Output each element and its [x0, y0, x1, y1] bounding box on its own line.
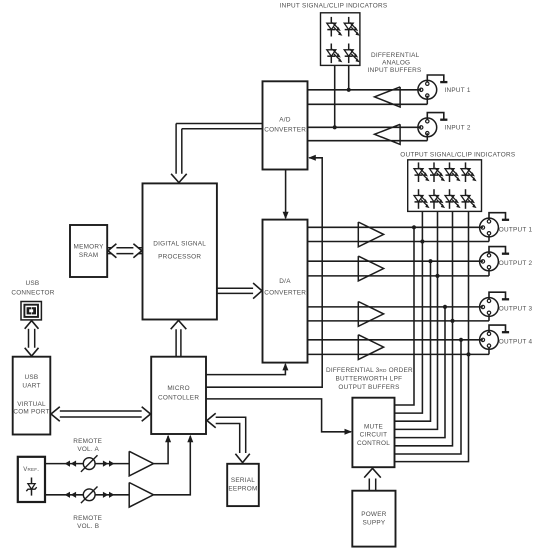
svg-text:CONNECTOR: CONNECTOR: [11, 290, 54, 297]
LED output indicator D7: [445, 162, 461, 182]
svg-text:DIFFERENTIAL: DIFFERENTIAL: [371, 52, 420, 59]
svg-text:MUTE: MUTE: [364, 424, 383, 431]
wire A/D to DSP bus inner drop: [181, 129, 183, 175]
svg-text:POWER: POWER: [361, 511, 387, 518]
LED input indicator D2: [344, 17, 360, 37]
arrowhead bus into mute control bottom: [364, 468, 381, 477]
svg-text:INPUT SIGNAL/CLIP INDICATORS: INPUT SIGNAL/CLIP INDICATORS: [280, 3, 388, 10]
wire vol B buffer output up to micro: [154, 436, 191, 495]
LED input indicator D4: [344, 44, 360, 64]
svg-text:ANALOG: ANALOG: [382, 59, 410, 66]
chevron arrows toward Vref on vol B line: [65, 492, 77, 498]
XLR connector INPUT 1 with chassis ground: [418, 75, 448, 99]
wire input 1 hot: XLR pin to A/D: [308, 89, 422, 91]
LED output indicator D10: [430, 189, 446, 209]
junction mute sense tap 3: [428, 259, 432, 263]
wire D/A output 1 hot line to XLR pin 2: [308, 226, 483, 228]
svg-text:INPUT BUFFERS: INPUT BUFFERS: [368, 67, 422, 74]
wire input 2 hot: XLR pin to A/D: [308, 126, 422, 128]
wire SRAM-DSP bus lower rail: [107, 253, 142, 255]
wire SRAM-DSP bus upper rail: [107, 247, 142, 249]
block A/D converter: [263, 81, 308, 169]
XLR connector INPUT 2 with chassis ground: [418, 113, 448, 137]
LED input indicator D3: [327, 44, 343, 64]
arrowhead bus into SRAM: [108, 244, 116, 258]
wire mute sense line 1 from output line to mute control: [395, 227, 415, 405]
svg-text:REMOTE: REMOTE: [73, 515, 102, 522]
LED output indicator D6: [430, 162, 446, 182]
svg-text:USB: USB: [25, 374, 39, 381]
op-amp butterworth LPF output buffer U6: [358, 335, 383, 360]
arrowhead into A/D right edge: [308, 155, 316, 161]
wire D/A output 3 hot line to XLR pin 2: [308, 306, 483, 308]
block output signal/clip indicator LEDs: [408, 160, 482, 212]
wire vol A buffer output up to micro: [154, 436, 169, 464]
op-amp differential input buffer U1: [375, 87, 401, 107]
wire output 4 cold stub up to XLR pin 3: [488, 347, 490, 354]
wire micro to mute circuit control: [206, 399, 351, 432]
chevron arrows toward Vref on vol A line: [65, 461, 77, 467]
arrowhead bus into DSP bottom: [171, 320, 187, 329]
svg-text:VIRTUAL: VIRTUAL: [17, 401, 46, 408]
svg-text:SERIAL: SERIAL: [231, 477, 255, 484]
svg-text:OUTPUT 3: OUTPUT 3: [499, 305, 533, 312]
op-amp butterworth LPF output buffer U4: [358, 256, 383, 281]
wire output 1 cold stub up to XLR pin 3: [488, 235, 490, 242]
wire USB connector-UART bus right rail: [34, 329, 36, 349]
USB connector icon: [21, 302, 41, 320]
wire D/A output 3 cold line: [308, 320, 490, 322]
wire mute sense line 8 from output line to mute control: [395, 211, 469, 461]
wire UART-micro bus upper rail: [60, 410, 143, 412]
wire power-mute bus left rail: [368, 479, 370, 491]
svg-text:COM PORT: COM PORT: [13, 409, 49, 416]
junction mute sense tap 8: [466, 352, 470, 356]
wire Vref to remote vol A pot: [45, 463, 83, 465]
svg-text:UART: UART: [22, 382, 40, 389]
svg-text:CONVERTER: CONVERTER: [264, 289, 306, 296]
wire DSP to D/A bus lower rail: [217, 292, 254, 294]
LED input indicator D1: [327, 17, 343, 37]
wire remote vol A pot to buffer: [95, 463, 129, 465]
wire input 1 cold stub to XLR pin 3: [426, 96, 428, 105]
block mute circuit control: [352, 398, 394, 468]
arrowhead vol A into micro bottom: [165, 435, 171, 443]
arrowhead into D/A top: [283, 212, 289, 220]
arrowhead vol B into micro bottom: [187, 435, 193, 443]
block input signal/clip indicator LEDs: [321, 13, 360, 66]
wire input LED column 1 down to input 2 hot line: [334, 65, 336, 127]
junction input 2 hot / LED column 1: [333, 125, 337, 129]
junction mute sense tap 5: [443, 305, 447, 309]
svg-text:MICRO: MICRO: [167, 385, 190, 392]
junction mute sense tap 7: [459, 338, 463, 342]
zener diode Vref: [26, 478, 36, 496]
svg-text:OUTPUT 4: OUTPUT 4: [499, 339, 533, 346]
svg-text:USB: USB: [26, 280, 40, 287]
arrowhead bus into USB UART top: [25, 348, 39, 356]
wire input 2 cold stub to XLR pin 3: [426, 133, 428, 141]
wire mute sense line 7 from output line to mute control: [395, 340, 462, 454]
wire micro-EEPROM bus outer rail: [216, 417, 246, 453]
svg-text:INPUT 1: INPUT 1: [445, 87, 471, 94]
svg-text:VOL. A: VOL. A: [77, 446, 99, 453]
block Vref: [18, 457, 45, 502]
wire micro-EEPROM bus inner rail: [216, 424, 240, 454]
LED output indicator D8: [461, 162, 477, 182]
op-amp remote vol A buffer: [129, 451, 153, 476]
wire micro to D/A bottom control: [206, 364, 285, 374]
wire mute sense line 4 from output line to mute control: [395, 211, 438, 429]
svg-text:VOL. B: VOL. B: [77, 523, 99, 530]
LED output indicator D12: [461, 189, 477, 209]
svg-text:DIGITAL SIGNAL: DIGITAL SIGNAL: [153, 241, 206, 248]
junction mute sense tap 2: [420, 239, 424, 243]
wire output 3 cold stub up to XLR pin 3: [488, 315, 490, 321]
block power supply: [352, 491, 395, 547]
block digital signal processor: [143, 183, 217, 319]
svg-text:EEPROM: EEPROM: [228, 486, 257, 493]
wire D/A output 4 hot line to XLR pin 2: [308, 339, 483, 341]
wire D/A output 2 cold line: [308, 275, 490, 277]
LED output indicator D5: [414, 162, 430, 182]
svg-text:CONVERTER: CONVERTER: [264, 127, 306, 134]
LED output indicator D11: [445, 189, 461, 209]
svg-text:INPUT 2: INPUT 2: [445, 125, 471, 132]
svg-text:SRAM: SRAM: [79, 252, 98, 259]
block memory SRAM: [70, 225, 107, 277]
op-amp differential input buffer U2: [375, 124, 401, 144]
svg-text:CONTROL: CONTROL: [357, 440, 390, 447]
chevron arrows toward buffer on vol B line: [103, 492, 115, 498]
potentiometer remote vol A: [81, 455, 98, 472]
junction mute sense tap 1: [412, 225, 416, 229]
wire remote vol B pot to buffer: [95, 494, 129, 496]
svg-text:DIFFERENTIAL 3RD ORDER: DIFFERENTIAL 3RD ORDER: [326, 367, 413, 374]
wire micro to DSP bus left rail: [175, 329, 177, 357]
arrowhead into D/A bottom: [282, 363, 288, 371]
chevron arrows toward buffer on vol A line: [103, 461, 115, 467]
wire mute sense line 6 from output line to mute control: [395, 211, 453, 445]
arrowhead bus into micro right edge: [207, 413, 216, 427]
block D/A converter: [263, 220, 308, 363]
wire power-mute bus right rail: [375, 479, 377, 491]
wire A/D to DSP bus upper rail: [176, 123, 262, 125]
svg-text:A/D: A/D: [279, 117, 291, 124]
arrowhead bus into DSP top: [171, 174, 187, 183]
svg-text:CIRCUIT: CIRCUIT: [360, 432, 388, 439]
svg-text:D/A: D/A: [279, 278, 291, 285]
svg-text:OUTPUT 1: OUTPUT 1: [499, 226, 533, 233]
wire mute sense line 2 from output line to mute control: [395, 211, 423, 413]
svg-text:OUTPUT SIGNAL/CLIP INDICATORS: OUTPUT SIGNAL/CLIP INDICATORS: [400, 152, 515, 159]
wire Vref to remote vol B pot: [45, 494, 83, 496]
wire DSP to D/A bus upper rail: [217, 287, 254, 289]
XLR connector OUTPUT 2 with chassis ground: [480, 247, 510, 271]
XLR connector OUTPUT 4 with chassis ground: [480, 325, 510, 349]
wire micro to A/D control (up right side): [206, 158, 322, 387]
wire D/A output 4 cold line: [308, 353, 490, 355]
potentiometer remote vol B: [81, 487, 98, 504]
svg-text:SUPPY: SUPPY: [362, 520, 385, 527]
svg-text:BUTTERWORTH LPF: BUTTERWORTH LPF: [336, 375, 403, 382]
arrowhead into mute control left edge: [345, 429, 353, 435]
wire mute sense line 5 from output line to mute control: [395, 307, 446, 438]
junction input 1 hot / LED column 2: [347, 88, 351, 92]
wire input LED column 2 down to input 1 hot line: [348, 65, 350, 89]
wire D/A output 2 hot line to XLR pin 2: [308, 260, 483, 262]
junction mute sense tap 4: [435, 274, 439, 278]
wire UART-micro bus lower rail: [60, 416, 143, 418]
arrowhead bus into D/A left: [253, 283, 262, 299]
wire input 1 cold: XLR to A/D: [308, 103, 428, 105]
svg-text:OUTPUT BUFFERS: OUTPUT BUFFERS: [338, 384, 399, 391]
LED output indicator D9: [414, 189, 430, 209]
wire micro to DSP bus right rail: [180, 329, 182, 357]
block micro controller: [151, 357, 206, 434]
wire input 2 cold: XLR to A/D: [308, 140, 428, 142]
wire A/D down to D/A: [285, 170, 287, 219]
arrowhead bus into USB UART right edge: [51, 407, 60, 421]
svg-text:MEMORY: MEMORY: [74, 244, 105, 251]
svg-text:PROCESSOR: PROCESSOR: [158, 254, 201, 261]
arrowhead bus into DSP left: [133, 244, 141, 258]
wire A/D to DSP bus outer drop: [175, 124, 177, 175]
svg-text:REMOTE: REMOTE: [73, 438, 102, 445]
wire USB connector-UART bus left rail: [28, 329, 30, 349]
wire mute sense line 3 from output line to mute control: [395, 261, 431, 421]
XLR connector OUTPUT 1 with chassis ground: [480, 213, 510, 237]
op-amp butterworth LPF output buffer U5: [358, 302, 383, 327]
wire A/D to DSP bus lower rail: [182, 128, 263, 130]
arrowhead bus into micro left edge: [142, 407, 151, 421]
XLR connector OUTPUT 3 with chassis ground: [480, 292, 510, 316]
svg-text:OUTPUT 2: OUTPUT 2: [499, 260, 533, 267]
wire output 2 cold stub up to XLR pin 3: [488, 269, 490, 276]
op-amp remote vol B buffer: [129, 483, 153, 508]
block serial EEPROM: [227, 464, 259, 506]
svg-text:CONTOLLER: CONTOLLER: [158, 394, 199, 401]
block USB UART virtual COM port: [13, 357, 51, 435]
wire D/A output 1 cold line: [308, 241, 490, 243]
arrowhead bus into USB connector: [25, 321, 39, 329]
arrowhead bus into serial EEPROM top: [235, 454, 249, 463]
op-amp butterworth LPF output buffer U3: [358, 222, 383, 247]
junction mute sense tap 6: [450, 319, 454, 323]
